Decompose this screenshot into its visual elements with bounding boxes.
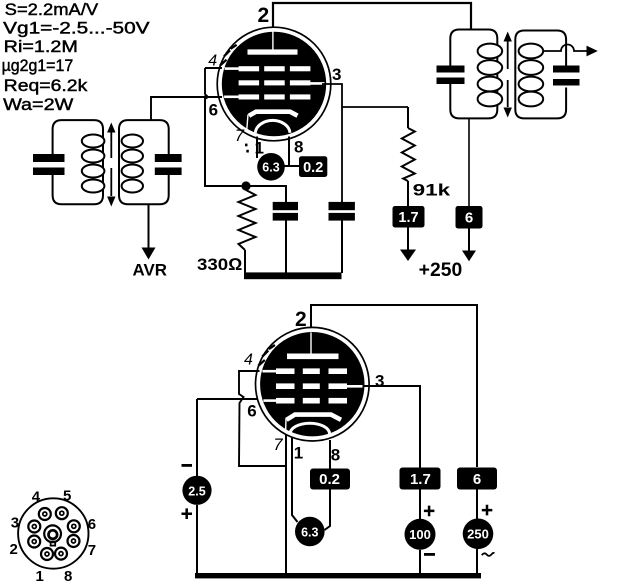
wire pin8 (bottom): [329, 440, 331, 469]
svg-text:Vg1=-2.5...-50V: Vg1=-2.5...-50V: [3, 19, 150, 37]
tube V2 grid g3 row: [276, 368, 347, 374]
transformer T1 tuning arrow: [107, 123, 115, 207]
voltmeter branch 100: [405, 490, 436, 576]
transformer T2 secondary winding box: [515, 31, 566, 119]
svg-text:1.7: 1.7: [398, 210, 418, 226]
transformer T1 primary coil loops: [82, 135, 105, 193]
svg-text:8: 8: [331, 446, 340, 465]
svg-text:µg2g1=17: µg2g1=17: [2, 57, 74, 75]
wire pin1 (bottom): [292, 437, 298, 522]
svg-text:4: 4: [244, 352, 253, 369]
svg-text:1: 1: [36, 568, 44, 585]
node cathode junction: [241, 181, 250, 190]
transformer T2 primary winding box: [450, 30, 497, 119]
tube V1 pin 7 dotted stub: [245, 144, 249, 153]
wire pin2 top: [273, 3, 471, 33]
socket outline: [18, 498, 88, 568]
svg-text:1.7: 1.7: [410, 471, 431, 488]
svg-text:5: 5: [63, 488, 71, 505]
wire 0.2 box to 6.3 meter: [325, 490, 331, 531]
svg-text:6.3: 6.3: [301, 526, 318, 540]
tube V1 grid g2 row: [239, 80, 311, 85]
arrow to +250 (from 6): [462, 228, 476, 261]
wire pin2 (bottom) to B+ column: [311, 305, 477, 467]
socket pin 5: [56, 507, 68, 519]
voltmeter 6.3 (bottom): [295, 517, 325, 547]
svg-text:3: 3: [332, 65, 341, 84]
transformer T1 primary winding box: [53, 120, 103, 204]
tube V1 g1 lead to pin 6: [224, 96, 239, 99]
tube V1 cathode: [247, 112, 298, 130]
current box 6 (bottom): [457, 468, 497, 490]
resistor 91k: [402, 107, 415, 206]
svg-text:4: 4: [208, 53, 217, 70]
svg-text:3: 3: [11, 515, 19, 532]
svg-text:91k: 91k: [413, 180, 451, 199]
wire pin1 heater: [256, 137, 258, 159]
socket pin 3: [28, 521, 40, 533]
tube V2 g3 lead to pin 4: [262, 370, 277, 373]
svg-text:Wa=2W: Wa=2W: [3, 96, 74, 114]
capacitor C-T1a: [33, 154, 65, 175]
current box 1.7 (bottom): [400, 468, 441, 490]
resistor 330 ohm: [239, 190, 256, 273]
tube V1 envelope: [217, 27, 331, 141]
tube V2 screen lead to pin 3: [345, 385, 363, 388]
tube V2 g1 lead to pin 6: [263, 399, 277, 402]
svg-text:7: 7: [88, 542, 96, 559]
tube V2 grid g1 row: [276, 398, 347, 404]
svg-text:330Ω: 330Ω: [197, 255, 243, 274]
svg-text:2: 2: [258, 4, 270, 27]
socket pin 6: [68, 520, 80, 532]
tube V1 heater dome: [255, 120, 290, 132]
svg-text:6: 6: [88, 516, 96, 533]
AVR arrow: [142, 204, 156, 260]
capacitor C2 (screen bypass): [329, 202, 355, 273]
wire pin7 to ground rail: [285, 434, 287, 575]
transformer T2 primary coil loops: [478, 44, 503, 107]
svg-text:+250: +250: [419, 260, 463, 281]
spec text block: [2, 1, 150, 114]
wire pin8 heater: [289, 137, 299, 167]
transformer T1 secondary coil loops: [122, 135, 143, 193]
tube V2 g3 dashed rim marks: [258, 345, 275, 366]
voltmeter 6.3 (top): [257, 153, 285, 181]
tube V1 screen lead to pin 3: [308, 82, 325, 85]
tube V2 pin labels: [244, 308, 384, 465]
socket pin 2: [28, 536, 40, 548]
wire transformer T2 primary bottom to 6 box: [468, 118, 470, 206]
wire meter link: [285, 165, 300, 167]
current box 1.7 (top): [393, 206, 425, 228]
wire pin3 (bottom): [364, 386, 421, 468]
socket pin 7: [68, 535, 80, 547]
voltmeter branch 2.5: [182, 399, 212, 575]
tube V1 grid g1 row: [239, 94, 311, 99]
svg-text:1: 1: [294, 444, 303, 463]
wire pin3 to screen network: [322, 84, 408, 202]
svg-text:Ri=1.2M: Ri=1.2M: [4, 38, 78, 56]
svg-text:Req=6.2k: Req=6.2k: [4, 77, 88, 95]
wire pin6 (bottom): [197, 398, 258, 400]
tube V2 grid g2 row: [276, 383, 347, 389]
socket pin 8: [55, 548, 67, 560]
svg-text:3: 3: [375, 372, 384, 391]
current box 0.2 (top): [299, 156, 327, 177]
transformer T2 tuning arrow: [504, 32, 512, 118]
transformer T2 secondary coil loops: [519, 44, 544, 107]
svg-text:2.5: 2.5: [188, 484, 205, 498]
ground rail (bottom circuit): [195, 573, 481, 578]
ground bus (top circuit): [244, 272, 342, 279]
svg-text:6: 6: [209, 101, 218, 120]
tube V1 g3 lead to pin 4: [225, 67, 240, 70]
svg-text:100: 100: [409, 527, 431, 542]
svg-text:8: 8: [294, 138, 303, 157]
svg-text:AVR: AVR: [133, 262, 168, 280]
svg-text:7: 7: [273, 436, 283, 454]
tube V1 grid g3 row: [239, 66, 311, 71]
svg-text:0.2: 0.2: [303, 160, 323, 176]
tube V1 anode plate: [248, 32, 298, 55]
transformer T1 secondary winding box: [119, 120, 169, 204]
capacitor C-T2b: [553, 66, 580, 86]
tube V2 anode plate: [287, 333, 339, 360]
tube V1 pin labels: [208, 4, 341, 157]
socket pin 1: [41, 548, 53, 560]
svg-text:6: 6: [473, 471, 481, 488]
tube V2 heater dome: [290, 423, 330, 434]
output arrowhead: [587, 46, 598, 57]
svg-text:6: 6: [465, 209, 473, 226]
svg-text:8: 8: [64, 568, 72, 585]
tube V1 g3 dashed rim marks: [220, 45, 237, 66]
svg-text:S=2.2mA/V: S=2.2mA/V: [5, 1, 99, 19]
socket pin labels: [10, 488, 97, 585]
tube V2 cathode: [286, 415, 341, 432]
svg-text:2: 2: [10, 541, 18, 558]
svg-text:6.3: 6.3: [262, 161, 279, 175]
current box 0.2 (bottom): [310, 469, 350, 490]
wire pin4 with hop over pin6 wire: [239, 371, 286, 466]
voltmeter branch 250: [463, 490, 495, 576]
svg-text:6: 6: [247, 402, 256, 421]
capacitor C-T2a: [437, 66, 465, 85]
arrow to +250 (from 1.7): [400, 227, 416, 261]
current box 6 (top): [456, 206, 483, 229]
socket pin 4: [39, 508, 51, 520]
output wire with hop: [543, 45, 588, 51]
svg-text:250: 250: [467, 527, 489, 542]
wire grid return to cathode node: [205, 97, 242, 186]
wire grid: transformer to pins 4 and 6: [151, 68, 222, 120]
junction pins4-6: [204, 95, 208, 99]
tube V2 envelope: [255, 327, 369, 441]
svg-text:2: 2: [295, 308, 307, 331]
svg-text:4: 4: [32, 489, 41, 506]
svg-text:0.2: 0.2: [319, 471, 340, 488]
capacitor C1 (cathode bypass): [246, 186, 298, 273]
svg-text:7: 7: [235, 127, 245, 145]
socket center spigot: [44, 525, 61, 545]
svg-text:1: 1: [255, 138, 264, 157]
capacitor C-T1b: [155, 154, 182, 175]
